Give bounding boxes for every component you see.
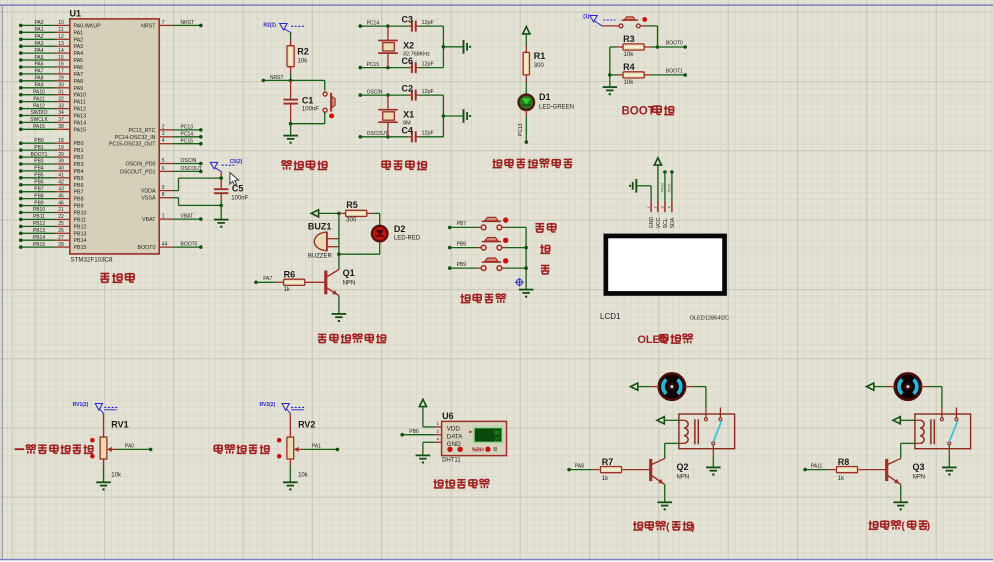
svg-text:PB1: PB1 [74,148,84,154]
svg-text:1k: 1k [838,476,845,482]
svg-text:26: 26 [58,228,64,234]
svg-text:15: 15 [58,55,64,61]
svg-text:R1: R1 [534,51,546,61]
svg-text:PA15: PA15 [74,127,87,133]
svg-text:OLED12864I2C: OLED12864I2C [690,316,730,322]
svg-text:PB9: PB9 [74,204,84,210]
resistor R2 (10k) [287,40,309,74]
ground reset block [283,135,298,137]
node PA7 wire to R6 [254,276,276,284]
pin OSCIN_PD0 (5) to node OSCIN [125,158,202,168]
svg-text:R3: R3 [623,34,635,44]
svg-text:Q1: Q1 [343,268,355,278]
svg-text:12pF: 12pF [422,89,435,95]
svg-text:NPN: NPN [677,475,690,481]
wire node SDA [670,170,674,201]
junction OSCIN/crystal [386,93,390,97]
svg-text:VBAT: VBAT [142,217,156,223]
pin PB13 (26) with wire to node PB13 [19,228,87,237]
power symbol relay coil [657,417,664,424]
svg-text:PA7: PA7 [34,69,43,75]
pin PA0-WKUP (10) with wire to node PA0 [19,20,101,29]
svg-text:42: 42 [58,180,64,186]
capacitor C3 (12pF) [388,15,444,32]
wire D1 to node PC13 [518,110,528,144]
node PC15 wire [359,62,388,69]
pin PB7 (43) with wire to node PB7 [19,186,84,195]
wire probe to R2 [290,32,292,40]
svg-text:R8: R8 [838,457,850,467]
svg-text:19: 19 [58,145,64,151]
junction PC15/crystal [386,66,390,70]
pin BOOT0 (44) to node BOOT0 [138,242,203,252]
svg-text:27: 27 [494,438,500,444]
svg-text:PB0: PB0 [34,138,44,144]
svg-text:PB10: PB10 [659,182,664,193]
svg-text:BOOT0: BOOT0 [666,41,683,47]
svg-text:OSCOUT: OSCOUT [367,131,388,137]
svg-text:PA13: PA13 [74,114,87,120]
svg-text:NRST: NRST [141,23,156,29]
caption 程序运行指示灯 [493,159,495,168]
wire NRST to button [324,80,326,90]
wire R1 to D1 [525,82,527,95]
svg-text:14: 14 [58,48,64,54]
node NRST wire [262,75,325,82]
svg-text:GND: GND [649,217,655,229]
svg-text:SWCLK: SWCLK [30,117,48,123]
power symbol buzzer [311,210,318,217]
pin PB14 (27) with wire to node PB14 [19,235,87,244]
svg-text:PA9: PA9 [74,86,84,92]
svg-text:Q3: Q3 [913,462,925,472]
svg-text:PA9: PA9 [34,83,43,89]
svg-text:PB11: PB11 [74,217,87,223]
svg-text:SCL: SCL [663,218,669,228]
pin PA9 (30) with wire to node PA9 [19,83,83,92]
svg-text:R5: R5 [346,200,358,210]
svg-text:OSCIN_PD0: OSCIN_PD0 [125,162,155,168]
svg-text:10k: 10k [298,473,309,479]
pin PB9 (46) with wire to node PB9 [19,200,84,209]
svg-text:PA11: PA11 [33,96,45,102]
caption 加 [541,245,543,254]
pin PA14 (37) with wire to node SWCLK [19,117,86,126]
resistor R3 (10k) [610,34,658,58]
svg-text:PB11: PB11 [666,182,671,192]
svg-text:30: 30 [58,83,64,89]
relay body for Q2 [679,408,735,449]
svg-text:PA1: PA1 [34,27,43,33]
svg-text:VDD: VDD [447,426,461,433]
node PB9 wire to key [448,262,477,270]
wire capacitors to ground rail [442,26,463,68]
svg-text:12pF: 12pF [422,61,435,67]
power symbol motor [631,383,638,390]
svg-text:DHT11: DHT11 [442,457,461,463]
svg-text:PB5: PB5 [74,176,84,182]
svg-text:300: 300 [534,63,545,69]
svg-text:PB12: PB12 [33,221,45,227]
pin PB0 (18) with wire to node PB0 [19,138,84,147]
caption OLED显示屏 [638,334,693,346]
svg-text:PA14: PA14 [74,120,87,126]
pin PA1 (11) with wire to node PA1 [19,27,83,36]
svg-text:41: 41 [58,173,64,179]
svg-text:PB10: PB10 [33,207,45,213]
caption 继电器(风扇) [633,521,695,533]
junction R5/buzzer [337,212,341,216]
svg-text:PB7: PB7 [34,186,44,192]
svg-text:PB1: PB1 [34,145,44,151]
resistor R1 (300) [523,46,545,82]
svg-text:31: 31 [58,89,64,95]
svg-text:6: 6 [162,166,165,172]
svg-text:80: 80 [494,431,500,437]
sheet border top (blue) [0,4,993,6]
pin PA10 (31) with wire to node PA10 [19,89,86,98]
svg-text:PA5: PA5 [34,55,43,61]
pin PB6 (42) with wire to node PB6 [19,180,84,189]
wire power to motor [874,386,895,388]
wire pot to ground [289,466,291,482]
pin PB3 (39) with wire to node PB3 [19,159,84,168]
svg-text:PC15: PC15 [181,138,194,144]
U6 pin stubs 1 2 4 [435,421,442,442]
pin VSSA (8) [141,192,178,202]
net labels PB10 PB11 (rotated) [659,182,671,193]
wire capacitors to ground rail [442,95,463,137]
svg-text:U6: U6 [442,411,454,421]
caption 复位电路 [282,160,286,162]
svg-text:PC14: PC14 [181,131,194,137]
pin PA4 (14) with wire to node PA4 [19,48,83,57]
svg-text:): ) [927,520,931,532]
caption 继电器(净化) [869,520,931,532]
svg-text:PB6: PB6 [74,183,84,189]
svg-text:22: 22 [58,214,64,220]
ground (sideways) OLED [635,179,637,193]
mouse cursor arrow [230,173,239,186]
sheet border bottom [0,559,993,561]
wire R3 to R4 left rail [608,47,617,87]
transistor Q1 (NPN) [326,254,355,295]
svg-text:U1: U1 [70,9,82,19]
wire motor to relay contact [685,387,706,418]
svg-text:R2: R2 [297,47,309,57]
crystal X1 (8M) [378,95,414,137]
node OSCIN wire [359,90,388,97]
potentiometer RV (PA1) [277,413,303,465]
pin PB1 (19) with wire to node PB1 [19,145,84,154]
junction node C5 top [219,176,223,180]
ground Q3 emitter [893,501,908,503]
svg-text:10: 10 [58,20,64,26]
voltage probe C5(2) [210,162,218,169]
svg-text:PA11: PA11 [74,100,86,106]
capacitor C1 (100nF) [283,80,319,123]
capacitor C6 (12pF) [388,56,444,73]
caption 独立按键 [461,294,463,303]
LED D1 (LED-GREEN) [519,92,574,110]
svg-text:4: 4 [162,138,165,144]
pin PA6 (16) with wire to node PA6 [19,62,83,71]
node PB7 wire to key [448,221,477,229]
svg-text:VDDA: VDDA [141,189,156,195]
wire node SCL [663,170,667,201]
svg-text:38: 38 [58,124,64,130]
svg-text:R4: R4 [623,62,635,72]
svg-text:PB15: PB15 [74,245,87,251]
svg-text:PB9: PB9 [34,200,44,206]
wire power to OLED VCC [657,165,659,202]
svg-text:1k: 1k [284,287,291,293]
svg-text:PA1: PA1 [312,443,321,449]
svg-text:(1): (1) [583,14,589,20]
svg-text:OSCOUT: OSCOUT [181,166,202,172]
svg-text:PA1: PA1 [74,30,84,36]
svg-text:PA12: PA12 [74,107,87,113]
caption BOOT电路 [622,105,675,117]
node PA1 wire from wiper [303,443,339,451]
svg-text:PA3: PA3 [74,44,84,50]
svg-text:PA15: PA15 [33,124,45,130]
node PB6 wire to DATA [400,429,434,437]
svg-text:PB7: PB7 [74,190,84,196]
motor for Q3 relay [895,373,921,399]
svg-text:(: ( [901,520,905,532]
svg-text:PA10: PA10 [74,93,87,99]
svg-text:LED-GREEN: LED-GREEN [539,105,574,111]
svg-text:C3: C3 [402,15,414,25]
ground below C5 [214,219,229,221]
svg-text:34: 34 [58,110,64,116]
svg-text:PB3: PB3 [34,159,44,165]
svg-text:VBAT: VBAT [181,214,194,220]
wire power to relay coil [900,419,915,421]
capacitor C4 (12pF) [388,125,444,142]
svg-text:PA12: PA12 [33,103,45,109]
svg-text:LED-RED: LED-RED [394,236,421,242]
svg-text:PC15-OSC32_OUT: PC15-OSC32_OUT [109,142,156,148]
svg-text:PB8: PB8 [34,193,44,199]
push button key PB9 [477,258,526,271]
pin NRST (7) to node NRST [141,20,203,30]
svg-text:X2: X2 [403,40,414,50]
svg-text:PC13_RTC: PC13_RTC [129,128,156,134]
svg-text:PB8: PB8 [74,197,84,203]
svg-text:NRST: NRST [181,20,195,26]
wire OLED GND pin to ground [636,186,651,202]
svg-text:DATA: DATA [447,434,463,441]
wire relay common to ground [948,445,950,467]
svg-text:PA5: PA5 [74,58,84,64]
svg-text:VCC: VCC [656,217,662,228]
svg-text:PA2: PA2 [74,37,84,43]
svg-text:PB15: PB15 [33,242,45,248]
svg-text:PA4: PA4 [74,51,84,57]
svg-text:PB12: PB12 [74,224,87,230]
push button reset [323,92,335,118]
node PA0 wire from wiper [117,443,153,451]
resistor R5 (300) [339,200,380,223]
svg-text:PB10: PB10 [74,211,87,217]
caption 主芯片 [100,273,109,275]
pin PC14-OSC32_IN (3) to node PC14 [115,131,203,141]
junction R3/button [656,45,660,49]
svg-text:5: 5 [162,158,165,164]
caption 设置 [535,223,544,225]
svg-text:BOOT1: BOOT1 [31,152,48,158]
svg-text:PA4: PA4 [34,48,43,54]
node PA11 wire to R8 [803,463,828,471]
svg-text:BUZZER: BUZZER [308,254,333,260]
svg-text:2: 2 [437,429,440,434]
svg-text:R7: R7 [602,457,614,467]
svg-text:PB5: PB5 [34,173,44,179]
svg-text:17: 17 [58,69,64,75]
capacitor C5 (100nF) [214,171,249,205]
svg-text:X1: X1 [403,110,414,120]
caption 温湿度模块 [434,479,436,488]
svg-text:PB2: PB2 [74,155,84,161]
svg-text:21: 21 [58,207,64,213]
svg-text:STM32F103C8: STM32F103C8 [71,257,114,264]
caption 甲醛值调节 [214,444,222,446]
svg-text:25: 25 [58,221,64,227]
potentiometer RV (PA0) [90,413,116,465]
power symbol motor [867,383,874,390]
probe marker on keys rail [515,278,524,287]
svg-text:BOOT0: BOOT0 [138,245,156,251]
svg-text:PC13: PC13 [181,125,194,131]
svg-text:C5(2): C5(2) [230,159,243,165]
svg-text:SWDIO: SWDIO [31,110,48,116]
svg-text:2: 2 [162,124,165,130]
pin PA13 (34) with wire to node SWDIO [19,110,86,119]
svg-text:PA6: PA6 [74,65,84,71]
svg-text:RV2: RV2 [298,420,315,430]
svg-text:C1: C1 [302,96,314,106]
svg-text:BOOT0: BOOT0 [181,242,198,248]
svg-text:RV2(2): RV2(2) [260,402,276,408]
pin PA11 (32) with wire to node PA11 [19,96,86,105]
wire R2 to node NRST [290,74,292,81]
caption 晶振电路 [382,160,390,162]
svg-text:PA0: PA0 [125,443,134,449]
svg-text:PA8: PA8 [74,79,84,85]
svg-text:9: 9 [162,185,165,191]
svg-text:PB3: PB3 [74,162,84,168]
svg-text:45: 45 [58,193,64,199]
voltage probe RV2(2) [260,402,305,413]
wire R5 node down to Q1 collector node [337,213,341,256]
svg-text:C6: C6 [402,56,414,66]
svg-text:PB14: PB14 [33,235,45,241]
ground keys block [519,289,534,291]
caption 一氧化碳值调节 [15,448,25,450]
voltage probe (1) [583,14,615,26]
svg-text:R6: R6 [284,269,296,279]
svg-text:39: 39 [58,159,64,165]
wire power to motor [638,386,659,388]
svg-text:BOOT: BOOT [622,105,655,117]
svg-text:PA0: PA0 [34,20,43,26]
svg-text:PA11: PA11 [811,463,823,469]
svg-text:PB8: PB8 [457,241,467,247]
sensor U6 DHT11 body [442,421,507,455]
svg-text:Q2: Q2 [677,462,689,472]
svg-text:12: 12 [58,34,64,40]
ground relay contact [706,466,721,468]
pin PB5 (41) with wire to node PB5 [19,173,84,182]
resistor R4 (10k) [617,62,652,86]
ground (sideways) [463,40,465,54]
ground pot block [96,481,111,483]
svg-text:OSCIN: OSCIN [181,158,197,164]
wire relay common to ground [712,445,714,467]
svg-text:10k: 10k [111,473,122,479]
svg-text:PB4: PB4 [74,169,84,175]
svg-text:PB6: PB6 [409,429,419,435]
svg-text:32: 32 [58,96,64,102]
OLED display LCD1 body [604,234,727,296]
svg-text:46: 46 [58,200,64,206]
svg-text:(: ( [666,521,670,533]
power symbol DHT11 [419,399,426,406]
LED D2 (LED-RED) [372,213,421,241]
capacitor C2 (12pF) [388,84,444,101]
svg-text:PB7: PB7 [457,221,467,227]
svg-text:NPN: NPN [913,475,926,481]
OLED pin names GND VCC SCL SDA (rotated) [649,217,676,229]
svg-text:%RH: %RH [472,448,484,454]
svg-text:PA10: PA10 [33,89,45,95]
pin PA3 (13) with wire to node PA3 [19,41,83,50]
resistor R6 (1k) [276,269,324,293]
wire GND pin to ground [423,442,435,455]
svg-text:R2(2): R2(2) [263,23,276,29]
svg-text:PB13: PB13 [33,228,45,234]
ground DHT11 block [416,454,431,456]
wire relay coil to collector [665,443,679,458]
power symbol OLED [654,158,661,165]
svg-text:NPN: NPN [343,280,356,286]
wire pot to ground [103,466,105,482]
svg-text:OSCIN: OSCIN [367,90,383,96]
wire C1 to ground [290,124,292,135]
svg-text:37: 37 [58,117,64,123]
svg-text:PA7: PA7 [74,72,84,78]
svg-text:29: 29 [58,76,64,82]
relay body for Q3 [915,408,971,449]
wire power to R1 [525,34,527,46]
svg-text:C5: C5 [232,184,244,194]
node PA8 wire to R7 [567,463,592,471]
OLED pin stubs and pin numbers [647,202,672,213]
push button key PB8 [477,238,526,251]
svg-text:PA8: PA8 [34,76,43,82]
ground relay contact [942,466,957,468]
svg-text:8: 8 [162,192,165,198]
svg-text:100nF: 100nF [231,195,248,201]
pin PB15 (28) with wire to node PB15 [19,242,87,251]
pin PB12 (25) with wire to node PB12 [19,221,87,230]
svg-text:PB0: PB0 [74,141,84,147]
power symbol relay coil [893,417,900,424]
svg-text:RV1(2): RV1(2) [73,402,89,408]
svg-text:LCD1: LCD1 [600,312,621,321]
